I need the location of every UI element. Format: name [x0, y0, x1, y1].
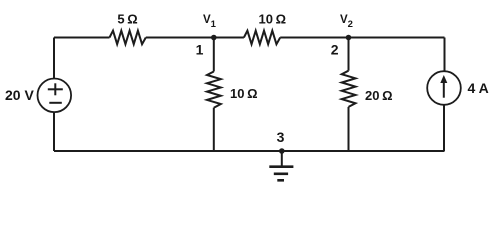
- wire V2 branch lower: [348, 107, 350, 151]
- svg-text:3: 3: [277, 129, 285, 145]
- wire V1 branch lower: [213, 108, 215, 151]
- node V2 dot: [346, 35, 352, 41]
- wire top-left segment: [54, 37, 110, 39]
- wire left vertical upper: [53, 38, 55, 79]
- wire right vertical upper: [444, 38, 446, 72]
- svg-text:1: 1: [196, 42, 204, 58]
- svg-text:20 V: 20 V: [5, 87, 34, 103]
- wire V1 branch upper: [213, 38, 215, 72]
- svg-text:10 Ω: 10 Ω: [259, 11, 287, 26]
- svg-text:5 Ω: 5 Ω: [117, 11, 137, 26]
- svg-text:2: 2: [331, 42, 339, 58]
- wire top-middle segment: [146, 37, 244, 39]
- resistor R3 10Ω vertical zigzag: [207, 72, 221, 108]
- node 3 ground dot: [279, 148, 285, 154]
- wire top-right segment: [280, 37, 444, 39]
- resistor R4 20Ω vertical zigzag: [342, 71, 356, 107]
- ground symbol: [269, 151, 293, 180]
- svg-text:4 A: 4 A: [468, 80, 489, 96]
- wire right vertical lower: [443, 105, 445, 151]
- wire V2 branch upper: [348, 38, 350, 71]
- current source IS1 4A: [427, 71, 461, 105]
- resistor R1 5Ω zigzag: [110, 31, 146, 45]
- wire left vertical lower: [53, 112, 55, 151]
- voltage source VS1 20V: [38, 79, 72, 113]
- resistor R2 10Ω horizontal zigzag: [244, 31, 280, 45]
- wire bottom: [54, 150, 445, 152]
- svg-text:20 Ω: 20 Ω: [365, 88, 393, 103]
- node V1 dot: [211, 35, 217, 41]
- svg-text:10 Ω: 10 Ω: [230, 86, 258, 101]
